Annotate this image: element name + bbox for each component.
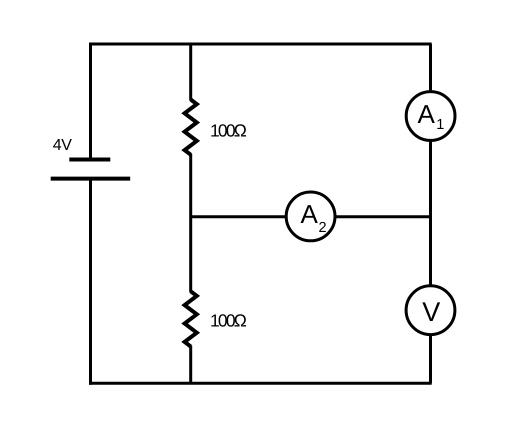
wire A2 branch left (191, 215, 287, 218)
wire middle branch center (189, 154, 192, 293)
voltmeter V circle (406, 286, 455, 335)
wire A2 branch right (335, 215, 431, 218)
svg-text:A: A (301, 199, 319, 229)
wire right upper (top wire to A1) (429, 44, 432, 92)
svg-text:V: V (422, 297, 440, 327)
svg-text:A: A (418, 99, 436, 129)
resistor R2 (100Ω bottom) (185, 291, 197, 346)
wire right lower (V to bottom wire) (429, 334, 432, 383)
wire bottom horizontal (89, 382, 432, 385)
wire left upper (top wire to battery) (89, 43, 92, 160)
ammeter A2 circle (286, 192, 335, 241)
label A2 (ammeter 2) (301, 199, 327, 236)
battery B1 (51, 160, 131, 179)
wire left lower (battery to bottom wire) (89, 179, 92, 385)
svg-text:100Ω: 100Ω (210, 311, 247, 331)
wire middle branch upper (189, 43, 192, 101)
label A1 (ammeter 1) (418, 99, 445, 133)
ammeter A1 circle (406, 92, 455, 141)
svg-text:4V: 4V (53, 137, 72, 154)
resistor R1 (100Ω top) (185, 100, 197, 155)
wire right middle (A1 to V) (429, 140, 432, 287)
svg-text:100Ω: 100Ω (210, 121, 247, 141)
svg-text:1: 1 (436, 117, 444, 133)
wire top horizontal (89, 43, 432, 46)
wire middle branch lower (189, 346, 192, 384)
svg-text:2: 2 (319, 220, 327, 236)
